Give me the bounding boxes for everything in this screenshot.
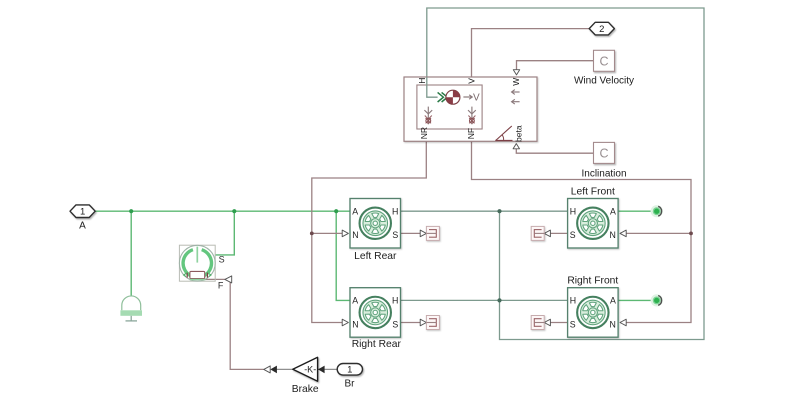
svg-text:H: H bbox=[392, 207, 398, 217]
svg-text:Inclination: Inclination bbox=[581, 169, 626, 180]
svg-text:N: N bbox=[610, 230, 616, 240]
svg-text:-K-: -K- bbox=[304, 364, 316, 374]
svg-text:H: H bbox=[570, 296, 576, 306]
svg-text:A: A bbox=[352, 207, 358, 217]
svg-text:F: F bbox=[218, 280, 224, 290]
svg-text:V: V bbox=[466, 78, 476, 84]
svg-text:Left Rear: Left Rear bbox=[354, 251, 397, 262]
svg-text:S: S bbox=[570, 319, 576, 329]
svg-text:C: C bbox=[599, 54, 608, 68]
svg-text:S: S bbox=[392, 319, 398, 329]
svg-text:1: 1 bbox=[80, 207, 85, 218]
svg-text:V: V bbox=[473, 92, 480, 103]
svg-text:2: 2 bbox=[599, 24, 604, 35]
svg-text:H: H bbox=[570, 207, 576, 217]
svg-text:H: H bbox=[417, 78, 427, 84]
svg-text:A: A bbox=[610, 296, 616, 306]
svg-text:A: A bbox=[352, 296, 358, 306]
svg-text:A: A bbox=[79, 221, 86, 232]
svg-text:NF: NF bbox=[466, 128, 476, 139]
svg-text:S: S bbox=[392, 230, 398, 240]
svg-text:W: W bbox=[511, 78, 521, 86]
svg-text:1: 1 bbox=[347, 365, 352, 376]
svg-text:N: N bbox=[610, 319, 616, 329]
svg-text:C: C bbox=[599, 146, 608, 160]
svg-text:Left Front: Left Front bbox=[571, 187, 615, 198]
svg-text:Right Rear: Right Rear bbox=[352, 339, 402, 350]
svg-text:beta: beta bbox=[513, 125, 523, 142]
svg-text:Brake: Brake bbox=[292, 384, 319, 395]
svg-text:Wind Velocity: Wind Velocity bbox=[574, 75, 634, 86]
svg-text:Right Front: Right Front bbox=[567, 276, 618, 287]
svg-text:N: N bbox=[352, 230, 358, 240]
svg-text:A: A bbox=[610, 207, 616, 217]
svg-text:N: N bbox=[352, 319, 358, 329]
svg-text:S: S bbox=[570, 230, 576, 240]
svg-text:Br: Br bbox=[345, 378, 356, 389]
svg-text:NR: NR bbox=[419, 127, 429, 139]
svg-text:H: H bbox=[392, 296, 398, 306]
svg-text:S: S bbox=[219, 255, 225, 265]
